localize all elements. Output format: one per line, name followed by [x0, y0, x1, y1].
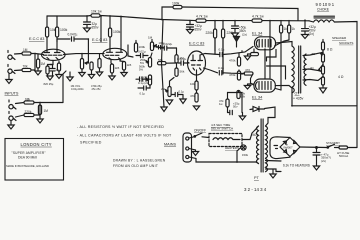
- svg-text:0.02µ: 0.02µ: [71, 87, 78, 91]
- svg-text:350v: 350v: [239, 29, 246, 33]
- svg-text:500mA: 500mA: [339, 154, 348, 158]
- bridge AC mark: [274, 146, 278, 149]
- svg-text:0.047µ: 0.047µ: [68, 33, 78, 37]
- ground (speaker chain): [320, 88, 327, 93]
- node junction main filter: [316, 147, 318, 149]
- transformer OT secondary winding: [304, 54, 306, 85]
- wire pin N to bottom rail: [189, 157, 256, 162]
- svg-text:820 25µ: 820 25µ: [44, 82, 54, 86]
- wire choke to right edge: [335, 22, 358, 106]
- input jack J2 (ch1 lo): [8, 65, 15, 74]
- svg-text:9 0 10 9 1: 9 0 10 9 1: [316, 2, 335, 7]
- ground (presence cap): [180, 99, 186, 104]
- svg-text:- ALL RESISTORS ½ WATT IF NOT: - ALL RESISTORS ½ WATT IF NOT SPECIFIED: [77, 125, 164, 129]
- ground (EL34a cathode): [244, 54, 250, 60]
- resistor 100k (V2 plate a): [109, 16, 111, 28]
- ground (V1 grid leak): [35, 68, 41, 75]
- wire bias staircase to PT: [265, 107, 276, 126]
- ground (ch2 area a): [67, 72, 73, 81]
- potentiometer 1M VOL ch1: [80, 59, 83, 70]
- wire to EL34b grid: [223, 72, 245, 75]
- fuse HT: [339, 146, 348, 149]
- resistor 68k (J3): [24, 101, 34, 104]
- switch S2 standby: [327, 144, 339, 147]
- capacitor 0.1u pair (V2 out): [136, 77, 152, 81]
- tube V2 internal electrodes: [106, 45, 123, 60]
- wire coupling to volume wiper: [74, 39, 88, 63]
- svg-text:DRAWN BY : L HASSELGREN: DRAWN BY : L HASSELGREN: [113, 159, 166, 163]
- tap resistor 4: [322, 77, 325, 85]
- svg-text:OT: OT: [295, 92, 301, 96]
- capacitor 25u 50V (bias): [230, 110, 233, 114]
- wire bias line: [228, 112, 230, 114]
- diode D5 (bias rectifier): [250, 107, 265, 112]
- capacitor 0.1u (presence): [172, 92, 184, 99]
- svg-text:HEATERS: HEATERS: [225, 146, 239, 150]
- wire top sub-rail to corner: [182, 7, 298, 20]
- ground (mains earth): [189, 149, 199, 156]
- svg-text:0.1µ: 0.1µ: [218, 66, 224, 70]
- wire tone mid vertical: [162, 48, 165, 107]
- wire screen feed drop: [269, 21, 271, 78]
- wire J4 to R: [16, 115, 25, 117]
- capacitor 32u 450V (2x) after choke: [302, 29, 309, 35]
- svg-text:470: 470: [245, 68, 250, 72]
- mains connector pin E: [186, 147, 189, 150]
- node bias feed triangle: [234, 37, 240, 42]
- wire V1 cathode drop: [50, 60, 53, 64]
- ground (rail node5 cap): [232, 33, 239, 37]
- svg-text:8Ω: 8Ω: [312, 52, 316, 56]
- choke CH1 winding: [309, 20, 334, 22]
- capacitor 500p (bright): [157, 46, 164, 50]
- choke CH1 core: [314, 16, 335, 18]
- capacitor 25u (V2 cathode bypass): [90, 62, 93, 70]
- svg-text:0.02µ: 0.02µ: [138, 50, 146, 54]
- wire ch2 junction link: [34, 103, 40, 116]
- svg-text:47k: 47k: [190, 94, 195, 98]
- wire tone out to V3 grid: [188, 62, 191, 65]
- svg-text:350v: 350v: [92, 25, 99, 29]
- svg-text:SOCKETS: SOCKETS: [339, 41, 353, 45]
- svg-text:240v: 240v: [251, 133, 258, 137]
- ground (heater CT): [270, 170, 276, 179]
- wire drop node2: [100, 16, 102, 42]
- ground (V1 cathode): [47, 73, 53, 80]
- svg-text:ON/OFF: ON/OFF: [194, 129, 206, 133]
- bias resistor 68k (in loop): [237, 91, 240, 99]
- wire to EL34a grid: [222, 47, 253, 55]
- svg-text:0.1µ (2x): 0.1µ (2x): [138, 81, 149, 85]
- wire right edge riser lower: [356, 106, 358, 148]
- tap arrow 4ohm: [318, 69, 321, 71]
- resistor 470k (EL34a grid): [237, 57, 240, 66]
- svg-text:LONDON CITY: LONDON CITY: [21, 142, 52, 147]
- wire filter node 1 drop: [86, 16, 88, 22]
- wire PI plate drop b: [222, 38, 224, 73]
- tube V5 internal electrodes: [256, 82, 271, 90]
- wire V3 plate b out: [204, 68, 218, 73]
- svg-text:MAINS: MAINS: [164, 142, 176, 146]
- svg-text:IN4007: IN4007: [284, 146, 293, 150]
- transformer PT core: [261, 119, 263, 172]
- svg-text:220k: 220k: [25, 110, 32, 114]
- tube V3 ECC83 phase inverter envelope: [188, 51, 206, 75]
- ground (ch1 jack sleeve): [6, 74, 12, 84]
- svg-text:E.C.C 83: E.C.C 83: [189, 42, 204, 46]
- wire screen EL34b: [276, 89, 282, 91]
- svg-text:PT: PT: [254, 176, 260, 180]
- svg-text:"SUPER AMPLIFIER": "SUPER AMPLIFIER": [12, 151, 46, 155]
- wire grid feed V1: [35, 54, 44, 55]
- tone slope resistor 1M: [175, 55, 178, 63]
- resistor 100k (V2b plate lower): [134, 43, 137, 52]
- resistor 100k (V1 plate a): [46, 27, 49, 37]
- resistor 470k (V2 grid leak): [98, 59, 101, 69]
- svg-text:4Ω: 4Ω: [310, 66, 314, 70]
- wire heater link between tubes: [264, 49, 266, 79]
- resistor 1k (EL34b screen): [288, 20, 290, 25]
- resistor 1k (EL34a cathode): [251, 53, 259, 56]
- wire EL34a cathode: [253, 49, 255, 52]
- wire R to V1 plate b: [56, 37, 58, 42]
- capacitor 0.1u (bass bottom): [138, 86, 146, 90]
- junction dots on rails: [34, 15, 324, 163]
- svg-text:4.7k 1w: 4.7k 1w: [252, 14, 264, 18]
- svg-text:150k: 150k: [242, 153, 249, 157]
- transformer OT primary winding: [292, 46, 294, 93]
- svg-text:1k: 1k: [292, 27, 296, 31]
- svg-text:25µ: 25µ: [56, 68, 61, 72]
- wire V2 cathode b drop: [120, 60, 124, 62]
- ground (choke cap): [302, 35, 309, 39]
- tap resistor 1 (speaker divider): [322, 42, 325, 50]
- svg-text:100k: 100k: [113, 30, 121, 34]
- wire rail segment 4: [262, 20, 309, 22]
- resistor 220k (PI plate b): [222, 21, 224, 29]
- input jack J3 (ch2 hi): [9, 100, 16, 109]
- wire OT centre tap to B+ riser: [292, 93, 357, 106]
- wire ch2 to V2 grid riser: [40, 102, 63, 104]
- svg-text:1k: 1k: [284, 27, 288, 31]
- resistor 4.7k 1W (series rail 2): [252, 19, 262, 22]
- svg-text:(2x): (2x): [321, 159, 326, 163]
- wire J1 to R: [15, 53, 23, 56]
- bias resistor 47k 1W vertical: [227, 93, 229, 100]
- ground (V2 cathode b): [121, 70, 127, 77]
- input jack J1 (ch1 hi): [8, 51, 15, 60]
- mains connector pin N: [186, 155, 189, 158]
- svg-text:1M: 1M: [148, 36, 153, 40]
- capacitor 32u 350V (main filter): [313, 148, 320, 159]
- svg-text:50v: 50v: [233, 105, 238, 109]
- resistor 47k (tail lower): [195, 93, 198, 102]
- wire lamp connections: [237, 148, 241, 163]
- svg-text:100k: 100k: [172, 2, 180, 6]
- tube V1 internal electrodes: [44, 39, 63, 59]
- wire drop node3 (V2 plate b): [120, 17, 122, 46]
- svg-text:68k: 68k: [25, 97, 31, 101]
- bias network loop top: [228, 93, 243, 113]
- svg-text:1M: 1M: [44, 109, 49, 113]
- svg-text:400v: 400v: [78, 87, 84, 91]
- wire EL34b plate to OT bottom: [275, 86, 292, 94]
- svg-text:STANDBY: STANDBY: [326, 141, 340, 145]
- capacitor 32u (rail node 4): [189, 21, 191, 25]
- svg-text:3 2 - 14 3 4: 3 2 - 14 3 4: [244, 187, 267, 192]
- ground (rail node4 cap): [187, 30, 194, 34]
- capacitor 0.047u (V1-V2 coupling): [72, 37, 75, 41]
- svg-text:E.C.C 83: E.C.C 83: [29, 37, 44, 41]
- relay coil: [213, 138, 240, 140]
- svg-text:220k: 220k: [206, 31, 214, 35]
- tube V4 internal electrodes: [256, 40, 271, 48]
- svg-text:- ALL CAPACITORS AT LEAST 400: - ALL CAPACITORS AT LEAST 400 VOLTS IF N…: [77, 134, 172, 138]
- svg-text:0.022µ: 0.022µ: [163, 42, 173, 46]
- wire drop to R 100k (V1 plate b): [56, 16, 58, 27]
- resistor 4.7k 1W (series rail): [196, 19, 206, 22]
- wire jacks junction link: [31, 54, 35, 71]
- capacitor 0.022u (tone a): [157, 46, 177, 50]
- svg-text:350v: 350v: [195, 27, 202, 31]
- svg-text:25v 25v: 25v 25v: [92, 87, 102, 91]
- wire drop to tone/V3 area: [162, 20, 163, 49]
- wire pin L to switch: [189, 137, 194, 138]
- svg-text:5%: 5%: [139, 68, 143, 72]
- wire J2 to R: [15, 69, 23, 72]
- resistor 820 (V1 cathode b): [58, 61, 60, 63]
- potentiometer mid 250k: [168, 87, 171, 97]
- mains connector pin L: [186, 137, 189, 140]
- ground (tone mid): [161, 107, 167, 112]
- svg-text:10k: 10k: [190, 82, 195, 86]
- svg-text:1M: 1M: [41, 62, 46, 66]
- wire V3 tail lower: [196, 75, 198, 81]
- ground (V1 cathode b): [56, 71, 62, 79]
- resistor 56k lower (tone): [175, 68, 178, 76]
- ground (V3 tail): [193, 106, 199, 110]
- svg-text:DELAY SWITCH: DELAY SWITCH: [211, 127, 233, 131]
- svg-text:DEA 90 MkII: DEA 90 MkII: [18, 155, 37, 159]
- svg-text:470k: 470k: [229, 59, 236, 63]
- wire J3 to R: [16, 103, 25, 104]
- resistor 470k (EL34b grid): [237, 71, 240, 80]
- wire heater out bottom: [266, 169, 282, 172]
- wire fuse to riser: [348, 147, 358, 149]
- resistor 1.5k (V2 cathode a): [110, 64, 113, 73]
- wire rail segment 3: [206, 20, 252, 22]
- resistor 1M (grid leak V1): [37, 54, 39, 59]
- wire PT primary top: [255, 126, 259, 130]
- resistor 100k (V1 plate b): [56, 27, 59, 37]
- wire R to V2 plate a: [109, 37, 111, 45]
- tap resistor 2: [322, 54, 325, 62]
- svg-text:EL 34: EL 34: [252, 95, 263, 100]
- ground (main filter cap): [313, 158, 319, 170]
- tube V5 EL34 b envelope: [254, 79, 275, 92]
- transformer PT heater winding: [266, 159, 268, 172]
- svg-text:0.1µ: 0.1µ: [219, 48, 225, 52]
- svg-text:1k5: 1k5: [127, 63, 132, 67]
- ground (V2 cathode cap): [88, 70, 94, 79]
- resistor 470 (EL34b grid stopper): [244, 72, 253, 75]
- svg-text:0.1µ: 0.1µ: [179, 90, 185, 94]
- wire OT secondary tap 4ohm: [303, 65, 323, 71]
- resistor 100k (top sub-rail): [173, 5, 182, 8]
- ground (bias line): [239, 113, 245, 121]
- mains connector body: [183, 133, 192, 162]
- tap arrow 8ohm: [320, 53, 323, 56]
- wire V1 out to V2 grid: [64, 53, 105, 56]
- resistor 1M (J1 grid stopper): [22, 52, 31, 55]
- svg-text:+ 435v: + 435v: [293, 97, 304, 101]
- wire R to V1 plate a: [46, 37, 48, 51]
- svg-text:70k: 70k: [23, 64, 29, 68]
- ground (vol ch1): [79, 69, 85, 77]
- svg-text:220k: 220k: [227, 31, 235, 35]
- svg-text:25k: 25k: [161, 87, 166, 91]
- wire V2 cathode a drop: [111, 60, 112, 64]
- ground (ch2 grid leak): [37, 115, 43, 123]
- wire heater out top: [266, 160, 282, 163]
- potentiometer 1M vol ch2: [150, 42, 153, 51]
- svg-text:5%: 5%: [140, 61, 144, 65]
- svg-text:100k: 100k: [60, 28, 68, 32]
- switch S1 on/off: [194, 133, 209, 138]
- resistor 10k 1W (series rail): [91, 14, 100, 17]
- svg-text:FROM AN OLD AMP UNIT: FROM AN OLD AMP UNIT: [113, 164, 158, 168]
- potentiometer treble 250k: [148, 58, 151, 68]
- svg-text:SPEAKER: SPEAKER: [332, 36, 347, 40]
- tube V1 ECC83 envelope: [42, 49, 66, 60]
- tap resistor 3: [322, 66, 325, 74]
- capacitor 0.02u (V2 coupling): [136, 54, 148, 58]
- B+ rail segment 1: [47, 15, 91, 18]
- svg-text:4.7k 1w: 4.7k 1w: [196, 14, 208, 18]
- resistor 820 (V1 cathode): [46, 66, 49, 74]
- resistor 220k (PI plate a): [214, 21, 216, 29]
- wire rail segment 2: [100, 16, 196, 21]
- svg-text:8 Ω: 8 Ω: [327, 48, 333, 52]
- svg-text:10k: 10k: [50, 28, 56, 32]
- svg-text:6.3v TO HEATERS: 6.3v TO HEATERS: [283, 164, 310, 168]
- capacitor 25u (V1 cathode bypass): [50, 66, 55, 73]
- svg-text:SPECIFIED: SPECIFIED: [80, 141, 102, 145]
- svg-text:E.C.C 83: E.C.C 83: [92, 38, 107, 42]
- ground (node1 cap): [84, 28, 91, 32]
- svg-text:68k: 68k: [241, 95, 246, 99]
- tap resistor chain top link: [322, 40, 324, 43]
- wire drop to R 100k (V1 plate a): [46, 16, 48, 27]
- svg-text:56k: 56k: [158, 58, 163, 62]
- wiper arrow (vol ch1): [85, 62, 88, 65]
- transformer OT core: [299, 46, 301, 93]
- bridge diode marks: [284, 141, 297, 154]
- resistor 56k (tone mid): [158, 62, 167, 65]
- svg-text:4 Ω: 4 Ω: [338, 75, 344, 79]
- pilot lamp LP1: [241, 145, 246, 150]
- capacitor 32u 350V (node1): [84, 22, 91, 28]
- wire EL34a plate to OT top: [276, 42, 293, 47]
- input jack J4 (ch2 lo): [9, 112, 16, 121]
- capacitor 50u 350V (rail node5): [234, 21, 236, 26]
- bridge rectifier diamond: [280, 138, 300, 157]
- wire screen EL34a: [275, 40, 290, 46]
- svg-text:10k 1w: 10k 1w: [91, 10, 102, 14]
- svg-text:470k: 470k: [229, 73, 236, 77]
- resistor 1k (EL34a screen): [280, 20, 282, 25]
- wire top sub-rail riser: [162, 7, 173, 20]
- wire bridge out to standby: [300, 146, 327, 149]
- wire OT secondary tap low: [303, 77, 323, 81]
- wire presence taps: [267, 50, 286, 80]
- resistor 1.5k (V2 cathode b): [122, 62, 125, 71]
- svg-text:0.022µ: 0.022µ: [177, 57, 187, 61]
- title box London City: [5, 139, 64, 181]
- resistor 68k (J4): [24, 113, 34, 116]
- svg-text:INPUTS: INPUTS: [5, 92, 19, 96]
- svg-text:1M: 1M: [23, 48, 28, 52]
- transformer PT primary winding: [257, 126, 259, 164]
- transformer PT HV secondary: [266, 126, 268, 158]
- wire HV secondary loop to bridge: [270, 137, 290, 159]
- node B+ tap (choke cap): [304, 21, 306, 29]
- wire PI plate drop a: [214, 38, 216, 54]
- resistor 10k (tail): [195, 81, 198, 90]
- svg-text:0.1µ: 0.1µ: [140, 92, 146, 96]
- ground (V2 grid leak): [96, 68, 102, 76]
- tube V2 ECC83 envelope: [103, 48, 127, 59]
- capacitor 0.1u (PI to EL34a): [220, 52, 223, 56]
- relay dashed box (time delay): [209, 134, 242, 147]
- ground (EL34b cathode): [244, 84, 250, 89]
- wire chain bottom: [322, 85, 324, 88]
- resistor 68k (J2 grid stopper): [22, 68, 31, 71]
- wire PT primary bottom: [256, 162, 259, 164]
- svg-text:1k5: 1k5: [115, 66, 120, 70]
- wire ch2 grid riser: [63, 71, 66, 103]
- svg-text:56k: 56k: [180, 70, 185, 74]
- svg-text:CHOKE: CHOKE: [317, 8, 330, 12]
- ground (V2 cathode a): [109, 73, 115, 80]
- wire V1 plate b to coupling cap: [57, 38, 70, 40]
- svg-text:(2x): (2x): [309, 32, 315, 36]
- tube V4 EL34 a envelope: [255, 37, 276, 50]
- capacitor 0.1u (PI to EL34b): [219, 71, 222, 75]
- wire relay out to PT primary: [242, 130, 255, 140]
- potentiometer bass 250k: [148, 75, 151, 85]
- svg-text:EL 34: EL 34: [252, 31, 263, 36]
- svg-text:100k: 100k: [139, 45, 146, 49]
- wire V3 plate a out: [200, 54, 219, 56]
- resistor 1M (ch2 grid leak): [38, 105, 41, 115]
- ground (J4 sleeve): [8, 121, 14, 130]
- wire V2 plate b drop to coupling: [128, 45, 133, 57]
- tube V3 internal electrodes: [191, 55, 203, 75]
- wire OT secondary tap 8ohm: [303, 52, 323, 56]
- svg-text:MADE IN BUXTEHUDE, HOLLAND: MADE IN BUXTEHUDE, HOLLAND: [6, 164, 49, 168]
- ground (mid pot): [166, 100, 172, 105]
- capacitor 0.022u (tone b): [178, 61, 189, 65]
